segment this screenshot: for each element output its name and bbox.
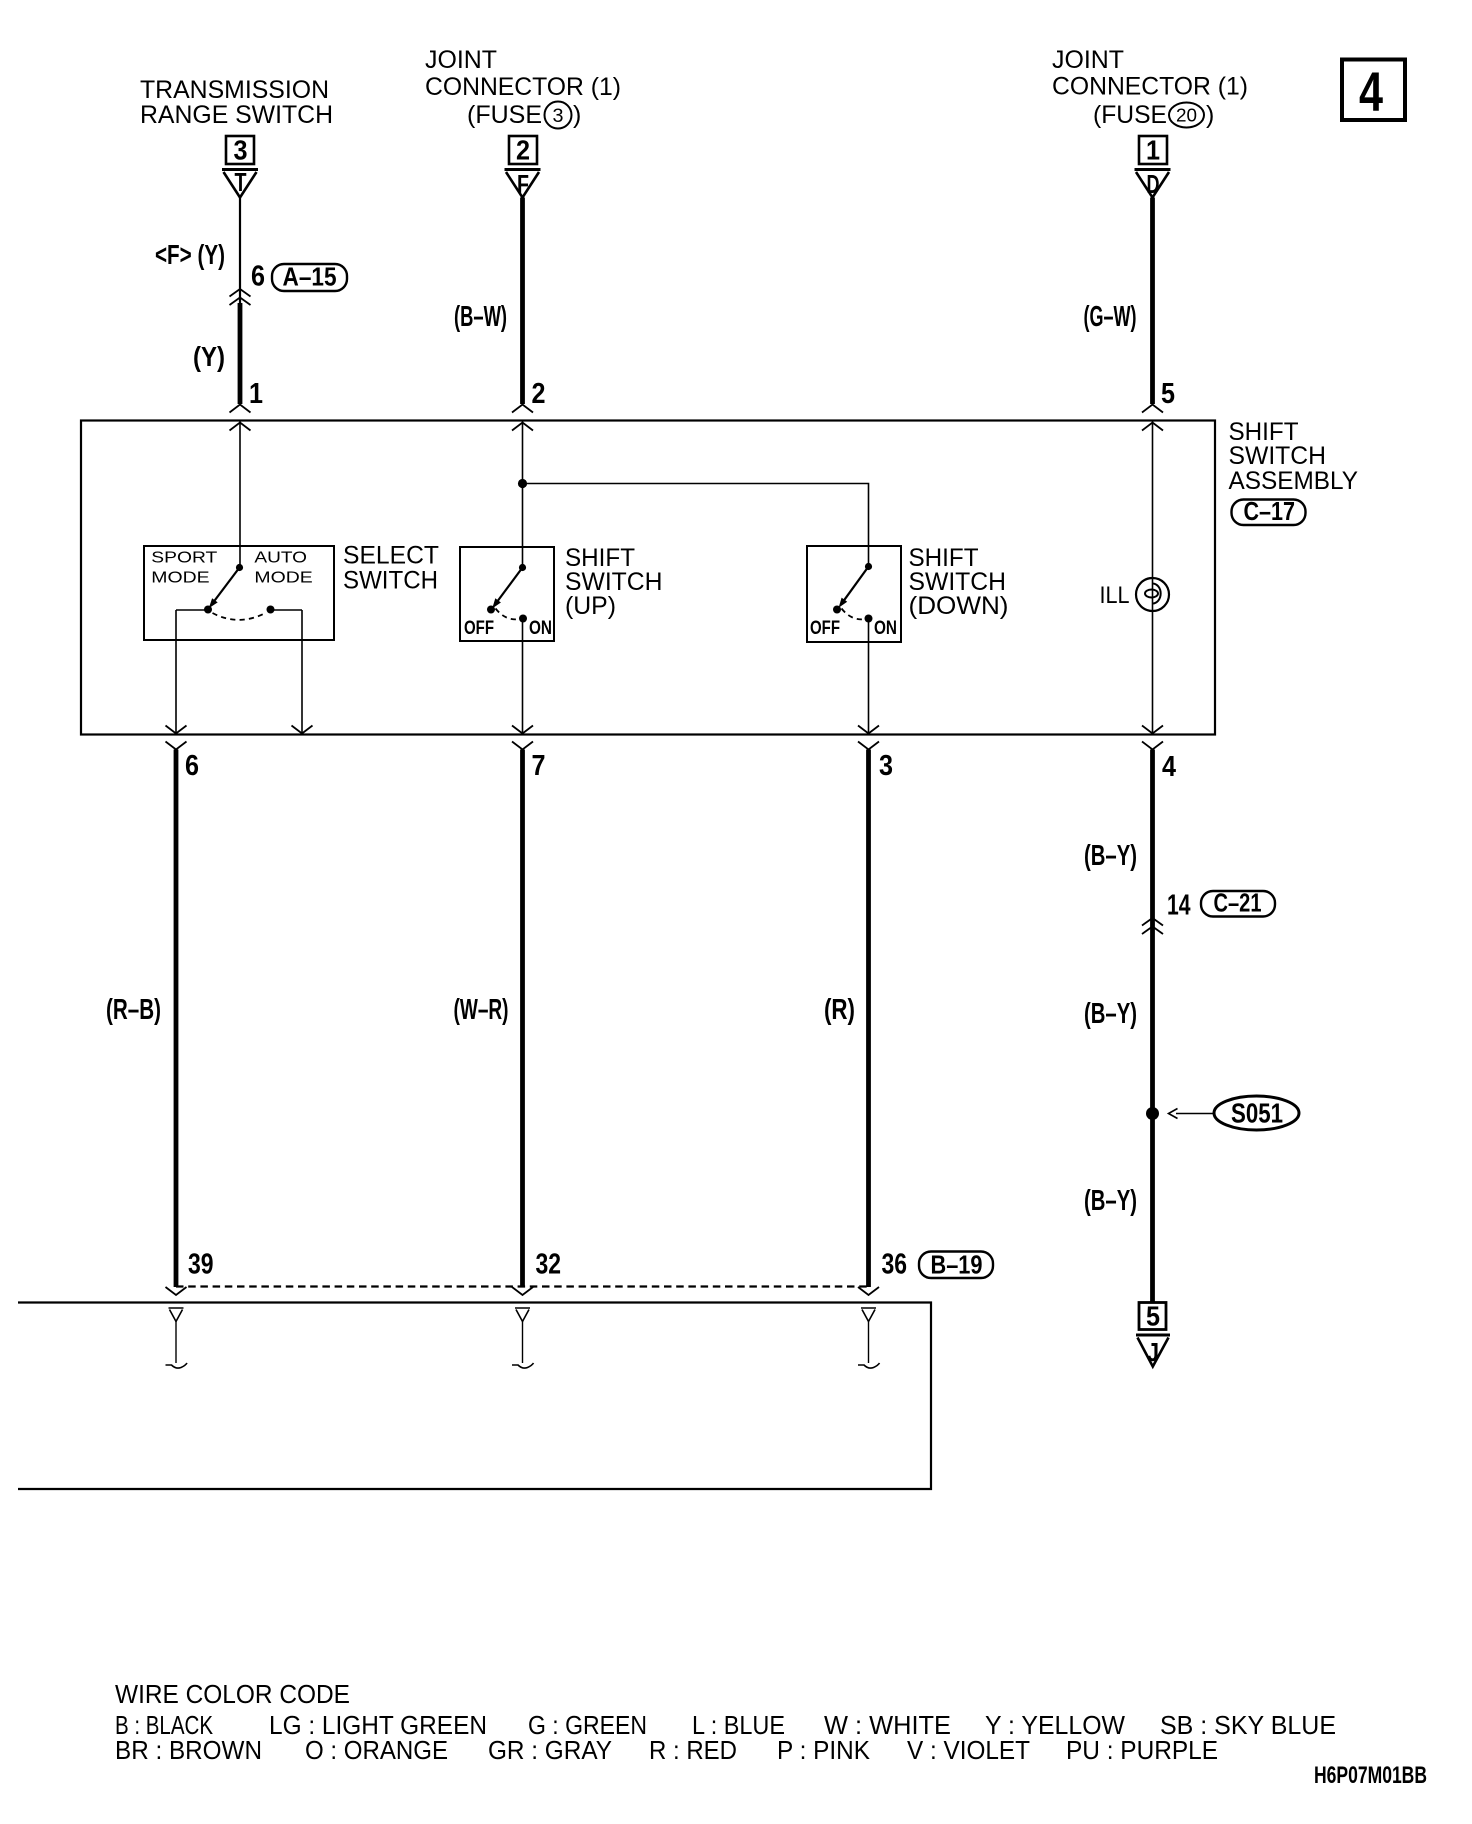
svg-text:4: 4 xyxy=(1162,751,1176,783)
shift switch up off contact dot xyxy=(487,606,495,614)
label OFF / ON (down switch) xyxy=(810,617,897,639)
label SHIFT SWITCH (UP) xyxy=(565,544,663,620)
svg-text:5: 5 xyxy=(1146,1301,1160,1332)
svg-text:V : VIOLET: V : VIOLET xyxy=(907,1735,1030,1765)
wire col3 (G-W) xyxy=(1150,198,1155,405)
wire (R-B) pin6 down xyxy=(174,750,179,1288)
svg-text:C–21: C–21 xyxy=(1214,888,1262,918)
wire select auto output xyxy=(301,610,303,735)
splice S051 ellipse xyxy=(1214,1096,1299,1130)
chevron pair pin 4 xyxy=(1142,726,1163,734)
svg-text:(UP): (UP) xyxy=(565,592,616,620)
svg-text:P : PINK: P : PINK xyxy=(777,1735,871,1765)
ground lead 1 wire and squiggle xyxy=(175,1322,177,1364)
svg-text:T: T xyxy=(235,167,247,197)
svg-text:3: 3 xyxy=(234,135,248,166)
label TRANSMISSION RANGE SWITCH xyxy=(140,76,333,129)
chevron pair pin 2 xyxy=(512,405,533,413)
chevron select auto dead end xyxy=(292,726,313,734)
svg-text:14: 14 xyxy=(1167,890,1191,922)
svg-text:WIRE COLOR CODE: WIRE COLOR CODE xyxy=(115,1679,350,1709)
svg-text:J: J xyxy=(1147,1337,1159,1367)
shift switch down on contact dot xyxy=(865,615,873,623)
illumination lamp ILL xyxy=(1136,578,1169,611)
svg-text:6: 6 xyxy=(251,261,265,293)
connector 5 box (bottom) xyxy=(1139,1303,1166,1330)
svg-text:39: 39 xyxy=(188,1249,214,1281)
label SHIFT SWITCH ASSEMBLY xyxy=(1229,418,1359,495)
svg-text:O : ORANGE: O : ORANGE xyxy=(305,1735,448,1765)
svg-text:): ) xyxy=(573,101,581,129)
svg-text:1: 1 xyxy=(249,378,263,410)
select switch dashed arc xyxy=(213,613,267,620)
wire shift up output xyxy=(522,619,524,735)
shift switch down box xyxy=(807,546,901,642)
svg-text:S051: S051 xyxy=(1231,1098,1283,1129)
double chevron A-15 crossing xyxy=(230,289,251,305)
wire (B-Y) pin4 down xyxy=(1150,750,1155,1302)
svg-text:ON: ON xyxy=(874,617,897,639)
fuse 20 circle xyxy=(1169,103,1204,128)
svg-text:(Y): (Y) xyxy=(193,341,225,372)
svg-text:ILL: ILL xyxy=(1100,582,1130,609)
chevron pin 36 end xyxy=(858,1287,879,1295)
select switch pivot dot xyxy=(236,564,243,571)
shift switch down pivot dot xyxy=(865,563,872,570)
fuse 3 circle xyxy=(545,102,572,129)
svg-text:MODE: MODE xyxy=(151,570,209,587)
wire col2 (B-W) xyxy=(520,198,525,405)
svg-text:JOINT: JOINT xyxy=(425,46,497,74)
wire feed to shift switch down xyxy=(523,484,869,567)
connector 2 triangle F xyxy=(505,168,541,171)
svg-text:D: D xyxy=(1147,169,1160,199)
connector label C-21 xyxy=(1201,891,1275,917)
shift switch up dashed arc xyxy=(496,609,520,620)
wire color code legend xyxy=(115,1679,1336,1765)
connector 1 triangle D xyxy=(1135,168,1171,171)
chevron pair pin 3 xyxy=(858,726,879,734)
junction node xyxy=(518,479,527,488)
connector label A-15 xyxy=(272,264,347,291)
svg-text:H6P07M01BB: H6P07M01BB xyxy=(1314,1762,1427,1789)
svg-text:(B–Y): (B–Y) xyxy=(1084,1185,1137,1217)
svg-text:SPORT: SPORT xyxy=(151,550,217,567)
splice S051 dot xyxy=(1146,1107,1159,1120)
svg-text:7: 7 xyxy=(532,750,546,782)
svg-text:C–17: C–17 xyxy=(1244,496,1296,526)
select switch box xyxy=(144,546,334,640)
select switch sport contact dot xyxy=(204,606,212,614)
svg-text:OFF: OFF xyxy=(810,617,840,639)
svg-text:PU : PURPLE: PU : PURPLE xyxy=(1066,1735,1218,1765)
svg-text:(B–Y): (B–Y) xyxy=(1084,998,1137,1030)
shift switch up lever xyxy=(497,568,523,603)
svg-text:3: 3 xyxy=(553,106,564,127)
svg-text:R : RED: R : RED xyxy=(649,1735,737,1765)
ground lead 3 triangle xyxy=(861,1308,876,1322)
label SPORT MODE xyxy=(151,550,312,587)
connector 1 box (joint connector 1 fuse 20) xyxy=(1139,136,1167,164)
svg-text:RANGE SWITCH: RANGE SWITCH xyxy=(140,101,333,129)
svg-text:OFF: OFF xyxy=(464,617,494,639)
chevron pair pin 5 xyxy=(1142,405,1163,413)
select switch contact rails xyxy=(176,609,208,611)
svg-text:MODE: MODE xyxy=(254,570,312,587)
wire select sport output xyxy=(175,610,177,735)
svg-text:F: F xyxy=(517,169,529,199)
svg-text:36: 36 xyxy=(882,1249,908,1281)
svg-text:CONNECTOR (1): CONNECTOR (1) xyxy=(425,73,621,101)
shift switch down off contact dot xyxy=(833,606,841,614)
label SELECT SWITCH xyxy=(343,542,439,595)
shift switch up on contact dot xyxy=(519,615,527,623)
chevron pin 39 end xyxy=(166,1287,187,1295)
wire col1 thick to shift switch assembly xyxy=(238,303,243,404)
connector 5 triangle J xyxy=(1136,1334,1170,1337)
chevron pair pin 6 xyxy=(166,726,187,734)
connector 3 box (transmission range switch) xyxy=(226,136,254,164)
svg-text:AUTO: AUTO xyxy=(254,550,307,567)
shift switch up pivot dot xyxy=(519,564,526,571)
connector 3 triangle T xyxy=(222,168,258,171)
svg-text:GR : GRAY: GR : GRAY xyxy=(488,1735,612,1765)
label SHIFT SWITCH (DOWN) xyxy=(909,544,1009,620)
svg-text:A–15: A–15 xyxy=(283,262,337,292)
ground lead 3 wire and squiggle xyxy=(868,1322,870,1364)
svg-text:(FUSE: (FUSE xyxy=(1093,101,1167,129)
svg-text:32: 32 xyxy=(536,1249,562,1281)
bottom module box xyxy=(18,1303,931,1490)
shift switch down dashed arc xyxy=(842,609,866,620)
dashed connector line xyxy=(176,1285,869,1287)
ground lead 1 triangle xyxy=(169,1308,184,1322)
svg-text:2: 2 xyxy=(516,135,530,166)
svg-text:): ) xyxy=(1206,101,1214,129)
svg-text:CONNECTOR (1): CONNECTOR (1) xyxy=(1052,73,1248,101)
svg-text:4: 4 xyxy=(1359,60,1383,123)
shift switch down lever xyxy=(843,567,868,602)
svg-text:ON: ON xyxy=(529,617,552,639)
page number 4 box xyxy=(1342,60,1405,121)
chevron pin 32 end xyxy=(512,1287,533,1295)
svg-text:3: 3 xyxy=(879,750,893,782)
svg-text:BR : BROWN: BR : BROWN xyxy=(115,1735,262,1765)
connector 2 box (joint connector 1 fuse 3) xyxy=(509,136,537,164)
wire (R) pin3 down xyxy=(866,750,871,1288)
svg-text:1: 1 xyxy=(1146,135,1160,166)
select switch lever xyxy=(214,568,240,602)
splice S051 arrow xyxy=(1176,1113,1214,1115)
svg-text:ASSEMBLY: ASSEMBLY xyxy=(1229,467,1359,495)
svg-text:TRANSMISSION: TRANSMISSION xyxy=(140,76,329,104)
svg-text:20: 20 xyxy=(1176,106,1197,126)
svg-text:(B–Y): (B–Y) xyxy=(1084,840,1137,872)
wire col1 upper (Y) from transmission range switch xyxy=(239,198,241,304)
svg-text:6: 6 xyxy=(185,750,199,782)
label JOINT CONNECTOR (1) (FUSE 20) xyxy=(1052,46,1248,129)
svg-text:JOINT: JOINT xyxy=(1052,46,1124,74)
svg-text:(G–W): (G–W) xyxy=(1084,301,1137,333)
chevron pair pin 1 xyxy=(230,405,251,413)
svg-text:(W–R): (W–R) xyxy=(454,994,509,1026)
svg-text:(R–B): (R–B) xyxy=(106,994,161,1026)
ground lead 2 wire and squiggle xyxy=(522,1322,524,1364)
svg-text:SELECT: SELECT xyxy=(343,542,439,570)
wire shift down output xyxy=(868,619,870,735)
chevron pair pin 7 xyxy=(512,726,533,734)
connector label B-19 xyxy=(919,1252,993,1279)
wire pin5 to illumination lamp xyxy=(1152,421,1154,735)
svg-text:(B–W): (B–W) xyxy=(454,301,507,333)
double chevron C-21 crossing xyxy=(1142,918,1163,934)
svg-text:<F> (Y): <F> (Y) xyxy=(155,239,225,270)
svg-text:5: 5 xyxy=(1161,378,1175,410)
label JOINT CONNECTOR (1) (FUSE 3) xyxy=(425,46,621,129)
svg-text:2: 2 xyxy=(532,378,546,410)
shift switch assembly box xyxy=(81,421,1215,735)
wire (W-R) pin7 down xyxy=(520,750,525,1288)
svg-text:(FUSE: (FUSE xyxy=(467,101,542,129)
ground lead 2 triangle xyxy=(515,1308,530,1322)
svg-text:SWITCH: SWITCH xyxy=(343,567,438,595)
label OFF / ON (up switch) xyxy=(464,617,552,639)
svg-text:SWITCH: SWITCH xyxy=(1229,442,1327,470)
shift switch up box xyxy=(460,547,554,641)
svg-text:B–19: B–19 xyxy=(931,1250,983,1280)
select switch auto contact dot xyxy=(267,606,275,614)
svg-text:(R): (R) xyxy=(824,994,855,1026)
connector label C-17 xyxy=(1232,500,1306,526)
wire pin2 to shift switch up xyxy=(522,421,524,568)
svg-text:(DOWN): (DOWN) xyxy=(909,592,1009,620)
wire pin1 to select switch pivot xyxy=(239,421,241,568)
